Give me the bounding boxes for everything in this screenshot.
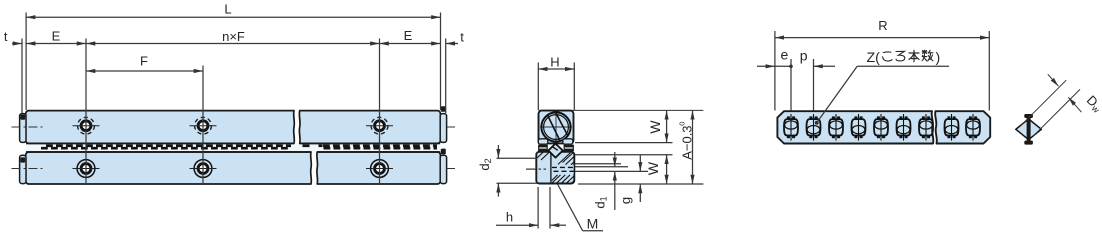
svg-text:E: E xyxy=(404,28,413,43)
svg-text:W: W xyxy=(645,161,661,175)
svg-text:g: g xyxy=(618,197,633,204)
svg-text:A−0.3: A−0.3 xyxy=(679,125,694,159)
svg-text:t: t xyxy=(460,30,464,45)
svg-text:h: h xyxy=(506,210,513,225)
svg-text:F: F xyxy=(140,54,148,69)
svg-text:L: L xyxy=(224,2,231,17)
svg-text:R: R xyxy=(878,18,887,33)
svg-text:t: t xyxy=(4,29,8,44)
svg-text:0: 0 xyxy=(678,122,687,126)
svg-text:e: e xyxy=(781,47,789,63)
svg-text:E: E xyxy=(52,29,61,44)
svg-text:): ) xyxy=(936,50,941,66)
svg-text:M: M xyxy=(587,216,599,232)
svg-text:Z(: Z( xyxy=(867,50,881,66)
svg-text:p: p xyxy=(800,48,808,64)
svg-text:H: H xyxy=(550,55,559,70)
svg-text:W: W xyxy=(647,120,663,134)
svg-text:n×F: n×F xyxy=(222,29,245,44)
